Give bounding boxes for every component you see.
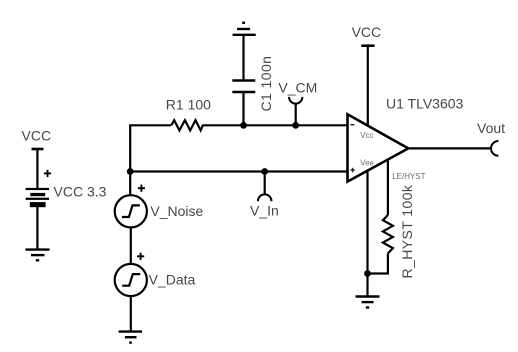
wire R_HYST bottom to junction	[368, 253, 388, 273]
ground (inverted, above C1)	[233, 23, 256, 35]
capacitor C1	[232, 81, 255, 93]
source V_Data plus sign	[137, 253, 144, 260]
battery VCC 3.3 plus sign	[44, 170, 51, 177]
node junction V_CM / top bus	[292, 122, 299, 129]
source V_Data	[115, 264, 147, 296]
svg-text:V_Data: V_Data	[149, 271, 196, 287]
wire left vertical (top bus to V_Noise)	[129, 125, 131, 195]
svg-text:U1 TLV3603: U1 TLV3603	[386, 95, 464, 111]
svg-text:V_In: V_In	[250, 202, 279, 218]
svg-text:VCC 3.3: VCC 3.3	[54, 183, 107, 199]
wire op-amp output	[408, 147, 491, 149]
op-amp U1	[348, 114, 409, 181]
wire battery to ground	[36, 207, 38, 249]
terminal Vout	[491, 141, 498, 156]
wire C1 to top bus	[242, 92, 244, 125]
wire V_CM to top bus	[295, 104, 297, 126]
svg-text:Vcc: Vcc	[360, 131, 373, 140]
svg-text:R1 100: R1 100	[166, 97, 211, 113]
ground (under V_Data)	[119, 332, 142, 343]
svg-text:C1 100n: C1 100n	[258, 56, 274, 112]
power symbol VCC (op-amp)	[361, 46, 374, 127]
svg-text:Vee: Vee	[360, 158, 374, 167]
svg-text:VCC: VCC	[22, 128, 52, 144]
node junction C1 / top bus	[240, 122, 247, 129]
resistor R1	[171, 120, 203, 130]
terminal V_In	[258, 194, 272, 201]
node junction V_In / bottom bus	[261, 168, 268, 175]
source V_Noise plus sign	[138, 185, 145, 192]
wire bottom bus	[129, 170, 347, 172]
wire top bus left segment	[129, 124, 171, 126]
wire V_Noise to V_Data	[130, 227, 132, 264]
svg-text:V_CM: V_CM	[278, 79, 317, 95]
node junction Vee / R_HYST	[364, 270, 371, 277]
ground (left)	[26, 250, 50, 261]
wire V_In	[264, 172, 266, 195]
svg-text:Vout: Vout	[477, 120, 505, 136]
power symbol VCC (left)	[32, 149, 44, 188]
wire top bus right segment	[202, 124, 347, 126]
ground (op-amp)	[356, 297, 380, 308]
wire ground to C1	[242, 35, 244, 80]
node junction V_Noise top	[127, 168, 134, 175]
terminal V_CM	[289, 97, 302, 104]
source V_Noise	[115, 195, 147, 227]
pin + (non-inverting input)	[350, 168, 354, 172]
wire V_Data to ground	[130, 296, 132, 332]
wire Vee to ground	[366, 171, 368, 297]
svg-text:R_HYST 100k: R_HYST 100k	[399, 184, 415, 278]
svg-text:VCC: VCC	[352, 24, 382, 40]
battery VCC 3.3	[26, 188, 49, 207]
svg-text:LE/HYST: LE/HYST	[392, 172, 425, 181]
resistor R_HYST	[383, 215, 393, 253]
pin - (inverting input)	[350, 124, 354, 126]
wire LE/HYST pin down	[387, 159, 389, 215]
svg-text:V_Noise: V_Noise	[150, 203, 203, 219]
